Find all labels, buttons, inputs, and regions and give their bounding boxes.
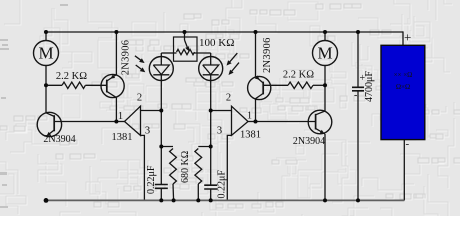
svg-text:1381: 1381 (240, 130, 261, 141)
wire C3 branch from top rail (357, 32, 359, 87)
voltage trigger U1 1381 left (125, 106, 141, 135)
wire right motor to Q4 collector column (324, 66, 326, 112)
photodiode D2 right (199, 57, 223, 81)
resistor R1 2.2 KOhm left zigzag (62, 82, 85, 88)
svg-text:0.22μF: 0.22μF (146, 165, 157, 194)
svg-text:2.2 KΩ: 2.2 KΩ (56, 71, 87, 82)
wire Q4 base from node U2 pin1 (256, 121, 316, 123)
resistor R3 680 KOhm zigzag (170, 149, 177, 185)
svg-text:100 KΩ: 100 KΩ (199, 37, 234, 49)
transistor Q1 2N3906 left PNP (101, 74, 124, 97)
capacitor C3 4700uF (352, 87, 364, 91)
wire right photodiode cathode column down to C2 (210, 75, 212, 185)
resistor R4 680 KOhm right zigzag (195, 149, 202, 185)
svg-text:M: M (317, 44, 332, 63)
wire 680K left leads (161, 147, 173, 201)
svg-text:2N3904: 2N3904 (43, 134, 75, 145)
transistor Q4 2N3904 right NPN (308, 110, 332, 134)
wire battery negative lead (403, 140, 405, 201)
svg-text:×× ×Ω: ×× ×Ω (394, 71, 413, 79)
potentiometer VR1 resistor zigzag (177, 49, 195, 54)
transistor Q3 2N3904 left NPN (37, 112, 61, 136)
wire Q2 base to R2 (263, 84, 288, 86)
svg-text:2.2 KΩ: 2.2 KΩ (283, 70, 314, 81)
svg-text:2N3906: 2N3906 (121, 40, 132, 76)
wire U1 pin 2 (141, 110, 162, 112)
transistor Q2 2N3906 right PNP (248, 75, 271, 99)
wire Q2 collector down to node U2 pin1 (255, 99, 257, 122)
svg-text:-: - (406, 138, 410, 150)
svg-text:680 KΩ: 680 KΩ (180, 151, 191, 183)
light arrows into D2 (227, 53, 240, 75)
wire Q4 emitter to ground rail (324, 134, 326, 200)
svg-text:Ω×Ω: Ω×Ω (396, 83, 410, 91)
svg-text:2: 2 (226, 93, 231, 104)
svg-text:1: 1 (247, 111, 252, 122)
wire pot wiper from rail (184, 32, 186, 40)
svg-text:2N3906: 2N3906 (262, 37, 273, 73)
capacitor C1 0.22uF left (155, 185, 168, 189)
voltage trigger U2 1381 right (232, 106, 249, 135)
svg-text:3: 3 (217, 126, 222, 137)
wire Q1 emitter to top rail (115, 32, 117, 75)
wire battery top lead (402, 31, 404, 45)
wire R2 to right motor column (313, 84, 325, 86)
wire right motor top stub (324, 32, 326, 41)
capacitor C2 0.22uF right (204, 185, 217, 189)
svg-text:2N3904: 2N3904 (293, 136, 325, 147)
wire top positive rail (46, 31, 403, 33)
wire U1 pin 1 (116, 121, 124, 123)
wire left motor top stub (45, 32, 47, 41)
wire Q3 base from node 1 (54, 121, 116, 123)
wire pot left lead (161, 52, 176, 54)
light arrows into D1 (135, 56, 145, 73)
svg-text:-: - (354, 90, 357, 101)
svg-text:1381: 1381 (112, 132, 133, 143)
svg-text:3: 3 (145, 126, 150, 137)
photodiode D1 left (149, 57, 173, 81)
wire U2 pin 2 (211, 110, 232, 112)
wire left resistor leads (46, 84, 107, 86)
potentiometer VR1 box (174, 37, 198, 61)
motor M2 right (313, 41, 338, 66)
wire left motor to Q3 collector column (45, 66, 47, 113)
battery BT1 (381, 45, 425, 139)
svg-text:0.22μF: 0.22μF (217, 170, 228, 199)
wire pot right lead (195, 52, 211, 54)
wire right photodiode top drop (210, 53, 212, 65)
wire C3 to ground rail (357, 91, 359, 201)
svg-text:2: 2 (137, 93, 142, 104)
wire left photodiode top drop (160, 53, 162, 65)
potentiometer VR1 wiper arrow (185, 40, 188, 47)
svg-text:4700μF: 4700μF (364, 71, 375, 102)
wire U2 pin 3 to ground rail (227, 135, 231, 200)
resistor R2 2.2 KOhm right zigzag (288, 82, 313, 88)
wire 680K right leads (198, 147, 210, 201)
svg-text:+: + (404, 30, 411, 45)
wire U1 pin 3 to ground rail (141, 135, 145, 200)
svg-text:1: 1 (118, 111, 123, 122)
wire Q2 emitter to top rail (255, 32, 257, 76)
wire ground bottom rail (46, 199, 404, 201)
svg-text:M: M (38, 44, 53, 63)
wire left photodiode cathode column down to C1 (160, 75, 162, 185)
motor M1 left (34, 41, 59, 66)
wire Q1 collector down to node 1 (115, 98, 117, 122)
wire U2 pin 1 (248, 121, 256, 123)
